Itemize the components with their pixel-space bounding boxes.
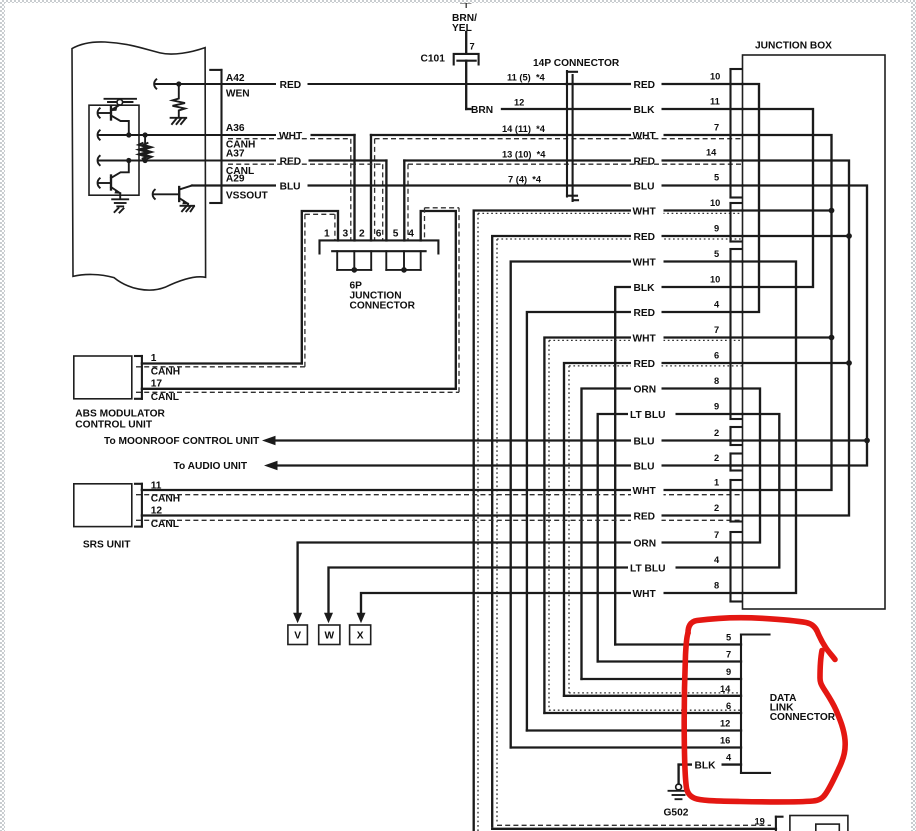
svg-text:13 (10) *4: 13 (10) *4 — [502, 150, 546, 160]
wire: To MOONROOF CONTROL UNIT arrow (row15 left) — [262, 436, 731, 445]
svg-text:8: 8 — [714, 581, 719, 591]
svg-text:YEL: YEL — [452, 23, 472, 34]
junction box connector bracket C (pins 5,10,4,7,6,8,9) — [731, 249, 742, 419]
scan border top — [0, 0, 916, 3]
wire: DLC pin 5 row (BLK) — [615, 643, 741, 645]
svg-text:10: 10 — [710, 275, 720, 285]
svg-text:16: 16 — [720, 736, 730, 746]
svg-text:BLK: BLK — [634, 283, 656, 294]
box X — [350, 625, 371, 645]
svg-text:BLK: BLK — [695, 761, 717, 772]
svg-text:CONTROL UNIT: CONTROL UNIT — [75, 420, 153, 431]
svg-text:WHT: WHT — [633, 486, 657, 497]
ground (Q2 emitter) — [112, 199, 128, 212]
svg-text:5: 5 — [714, 249, 719, 259]
arrow into V — [293, 613, 302, 624]
svg-text:A29: A29 — [226, 173, 245, 184]
junction box connector bracket F (pins 1,2) — [731, 480, 742, 522]
svg-text:9: 9 — [714, 224, 719, 234]
node: CANH internal junction — [126, 132, 131, 137]
svg-text:7: 7 — [714, 530, 719, 540]
wire: DLC pin 9 row — [582, 678, 742, 680]
shield dash row4 — [228, 164, 743, 240]
connector 14P bracket — [567, 71, 578, 201]
ground G502 — [669, 765, 689, 800]
wire: row7 RED to junction pin 9 — [492, 236, 742, 827]
junction box connector bracket B (pins 10,9) — [731, 203, 742, 242]
bottom unit inner box (cut off) — [816, 824, 840, 831]
wire: row17 WHT SRS CANH to junction pin 1 — [136, 490, 743, 495]
junction box internal bus v6 (WHT 5-8) — [743, 262, 797, 594]
wire: CANL internal (stub arc to A37) — [98, 156, 281, 165]
svg-text:LT BLU: LT BLU — [630, 410, 665, 421]
svg-text:9: 9 — [714, 402, 719, 412]
wire: ABS CANH riser (pin1 bridge) — [302, 211, 338, 364]
junction box connector bracket G (pins 7,4,8) — [731, 532, 742, 602]
svg-text:RED: RED — [634, 512, 656, 523]
arrow into W — [324, 613, 333, 624]
svg-text:RED: RED — [280, 80, 302, 91]
wire label BLU (row15) — [730, 439, 743, 441]
svg-text:A36: A36 — [226, 123, 245, 134]
junction box connector bracket E (pin 2) — [731, 454, 742, 471]
svg-text:WHT: WHT — [633, 207, 657, 218]
wire: To AUDIO UNIT arrow (row16 left) — [264, 461, 731, 470]
box W — [319, 625, 340, 645]
svg-text:4: 4 — [408, 229, 414, 240]
svg-text:10: 10 — [710, 72, 720, 82]
svg-text:2: 2 — [359, 229, 365, 240]
driver IC inner box — [89, 105, 139, 195]
svg-text:1: 1 — [151, 353, 157, 364]
svg-text:7: 7 — [714, 325, 719, 335]
svg-text:12: 12 — [514, 98, 524, 108]
svg-text:A37: A37 — [226, 148, 245, 159]
svg-text:6: 6 — [376, 229, 382, 240]
svg-text:BLU: BLU — [634, 437, 655, 448]
resistors R1 R2 (CAN termination pair) — [138, 135, 151, 161]
svg-text:WHT: WHT — [633, 258, 657, 269]
connector C101 — [454, 54, 479, 65]
svg-text:BLK: BLK — [634, 105, 656, 116]
svg-text:7: 7 — [714, 123, 719, 133]
svg-text:4: 4 — [726, 753, 732, 763]
svg-text:12: 12 — [720, 719, 730, 729]
svg-text:4: 4 — [714, 300, 720, 310]
control unit outline (wavy torn box) — [72, 42, 206, 290]
wire: DLC pin 14 row — [564, 693, 741, 696]
wire: row9 BLK to junction pin 10 — [615, 287, 742, 645]
svg-text:CANL: CANL — [151, 392, 179, 403]
wire: DLC pin 12 row — [527, 729, 741, 731]
wire: BRN from C101 to 14P pin 12 (row2) — [466, 61, 742, 109]
svg-text:BLU: BLU — [634, 462, 655, 473]
ABS modulator control unit box — [74, 356, 132, 399]
wire: row6 WHT to junction pin 10 — [474, 211, 743, 831]
svg-text:WEN: WEN — [226, 89, 250, 100]
junction box internal bus v8 (LT BLU 9-4) — [743, 414, 780, 568]
svg-text:11: 11 — [710, 97, 720, 107]
connector bracket (ECM pins A42/A36/A37/A29) — [210, 70, 221, 203]
svg-text:To MOONROOF CONTROL UNIT: To MOONROOF CONTROL UNIT — [104, 436, 260, 447]
svg-text:A42: A42 — [226, 73, 245, 84]
connector bracket (pin 19) — [776, 817, 783, 831]
6P jumper block pins 1-3-2 — [337, 251, 371, 273]
svg-text:WHT: WHT — [633, 589, 657, 600]
wire: row1 RED A42 to 14P to junction pin 10 — [566, 83, 743, 85]
node: CANL internal junction — [126, 158, 131, 163]
svg-text:WHT: WHT — [279, 131, 303, 142]
svg-text:1: 1 — [324, 229, 330, 240]
junction box outline — [743, 55, 886, 609]
wire: row13 ORN to junction pin 8 — [582, 389, 743, 680]
scan border left — [0, 0, 5, 831]
wire: row8 WHT to junction pin 5 — [511, 262, 743, 748]
svg-text:8: 8 — [714, 376, 719, 386]
wire label BLK (row2 right) — [631, 103, 662, 115]
wire: row3 WHT CANH (A36 to 6P pin3) — [281, 134, 355, 136]
svg-text:4: 4 — [714, 555, 720, 565]
transistor Q1 (PNP high-side) — [98, 105, 129, 135]
svg-text:CANH: CANH — [151, 367, 180, 378]
wire: bottom RED to connector pin 19 — [492, 825, 776, 829]
junction box internal bus v4 (RED 14-9-6-2) — [743, 161, 850, 516]
node: CANH termination junction — [143, 132, 148, 137]
svg-text:RED: RED — [634, 232, 656, 243]
wire: row3 WHT from 6P pin2 to 14P to junction pin 7 — [371, 134, 743, 136]
wire: row14 LT BLU to junction pin 9 — [598, 414, 743, 662]
wire: row18 RED SRS CANL to junction pin 2 — [136, 516, 743, 521]
junction box connector bracket A (pins 10,11,7,14,5) — [731, 69, 742, 198]
svg-text:ORN: ORN — [634, 385, 657, 396]
wire: row4 RED CANL (A37 to 6P pin6) — [281, 159, 386, 161]
svg-text:2: 2 — [714, 453, 719, 463]
svg-text:JUNCTION BOX: JUNCTION BOX — [755, 41, 832, 52]
wire: row4 RED from 6P pin5 to 14P to junction pin 14 — [404, 159, 742, 161]
svg-text:1: 1 — [714, 478, 719, 488]
wire: 6P pin5 vertical (CANL out) — [403, 161, 405, 241]
wire: row10 RED to junction pin 4 — [527, 312, 743, 731]
junction box connector bracket D (pin 2) — [731, 427, 742, 445]
wire: DLC pin 16 row — [511, 746, 741, 748]
wire: row11 WHT to junction pin 7 — [544, 338, 742, 714]
junction box internal bus v3 (WHT 7-10-7-1) — [743, 135, 832, 490]
red marker circle around DLC (hand-drawn) — [684, 618, 845, 802]
wire: row5 BLU VSSOUT (A29 to 14P to junction pin 5) — [192, 184, 743, 186]
6P jumper block pins 6-5-4 — [386, 251, 420, 273]
transistor Q3 (VSSOUT driver) — [153, 186, 192, 206]
svg-text:9: 9 — [726, 667, 731, 677]
shield dash ABS CANH — [136, 214, 335, 366]
box V — [288, 625, 308, 645]
svg-text:7: 7 — [726, 650, 731, 660]
svg-text:X: X — [357, 631, 364, 642]
connector 6P junction bracket bar — [320, 240, 439, 253]
svg-text:C101: C101 — [421, 54, 446, 65]
svg-text:14: 14 — [720, 684, 731, 694]
svg-text:V: V — [294, 631, 301, 642]
svg-text:7: 7 — [470, 42, 475, 52]
node: WEN/resistor junction dot — [176, 81, 181, 86]
junction box internal bus v7 (ORN 8-7) — [743, 389, 761, 543]
wire: row19 ORN junction pin 7 to V — [298, 543, 743, 614]
wire: ABS CANL riser (pin4 bridge) — [421, 211, 456, 389]
shield dash row3 — [228, 139, 743, 241]
node: CANL termination junction — [143, 158, 148, 163]
svg-text:W: W — [324, 631, 334, 642]
junction box internal bus v1 (RED 10-4) — [743, 84, 760, 312]
arrow into X — [357, 613, 366, 624]
SRS connector bracket — [135, 484, 142, 527]
wire: 6P pin6 vertical (CANL in) — [385, 161, 387, 241]
svg-text:VSSOUT: VSSOUT — [226, 190, 269, 201]
6P junction connector pin numbers 1 3 2 6 5 4 — [324, 229, 414, 240]
wire label RED (row1 right) — [631, 78, 662, 90]
SRS unit box — [74, 484, 132, 527]
shield dash ABS CANL — [136, 208, 459, 392]
wire: DLC pin 4 BLK ground row — [679, 759, 741, 772]
wire: BRN/YEL drop to C101 — [461, 3, 471, 54]
ground (Q3 emitter) — [181, 206, 195, 212]
supply rail symbol — [105, 99, 137, 105]
wire: CANH internal (stub arc to A36) — [98, 130, 281, 139]
svg-text:2: 2 — [714, 503, 719, 513]
svg-text:5: 5 — [714, 173, 719, 183]
svg-text:BRN: BRN — [471, 105, 493, 116]
bottom unit box (cut off) — [790, 816, 848, 831]
svg-text:ORN: ORN — [634, 539, 657, 550]
wire: DLC pin 6 row — [544, 710, 741, 713]
ABS connector bracket — [135, 356, 142, 399]
svg-text:19: 19 — [755, 817, 765, 827]
wire: row21 WHT junction pin 8 to X — [361, 593, 743, 613]
wire: row12 RED to junction pin 6 — [564, 363, 743, 696]
connector DLC bracket — [741, 635, 770, 774]
svg-text:10: 10 — [710, 198, 720, 208]
svg-text:RED: RED — [634, 308, 656, 319]
svg-text:7 (4) *4: 7 (4) *4 — [508, 175, 542, 185]
svg-text:14: 14 — [706, 148, 717, 158]
svg-text:17: 17 — [151, 378, 163, 389]
svg-text:14 (11) *4: 14 (11) *4 — [502, 124, 546, 134]
wire: 6P pin2 vertical (CANH out) — [370, 135, 372, 240]
svg-text:11 (5) *4: 11 (5) *4 — [507, 73, 546, 83]
svg-text:5: 5 — [393, 229, 399, 240]
wire: DLC pin 7 row — [598, 660, 741, 662]
svg-text:SRS UNIT: SRS UNIT — [83, 540, 131, 551]
svg-text:RED: RED — [280, 157, 302, 168]
svg-text:BLU: BLU — [634, 182, 655, 193]
svg-text:CONNECTOR: CONNECTOR — [350, 301, 416, 312]
svg-text:14P CONNECTOR: 14P CONNECTOR — [533, 58, 620, 69]
ground (R3) — [171, 118, 187, 124]
svg-text:WHT: WHT — [633, 334, 657, 345]
wire label BLU (row16) — [730, 464, 743, 466]
svg-text:ABS MODULATOR: ABS MODULATOR — [75, 409, 165, 420]
junction box internal bus v2 (BLK 11-10) — [743, 109, 814, 287]
wire: ABS CANH row — [142, 362, 302, 364]
svg-text:3: 3 — [343, 229, 349, 240]
wire: ECM internal WEN lead with stub arc — [154, 79, 566, 88]
junction box internal bus v5 (BLU 5-2-2) — [743, 186, 868, 466]
svg-text:BLU: BLU — [280, 182, 301, 193]
wire: ABS CANL row — [142, 388, 456, 390]
svg-text:RED: RED — [634, 80, 656, 91]
scan border right — [911, 0, 916, 831]
svg-text:5: 5 — [726, 633, 731, 643]
svg-text:6: 6 — [714, 351, 719, 361]
transistor Q2 (NPN low-side) — [98, 161, 129, 199]
svg-text:6: 6 — [726, 701, 731, 711]
svg-text:G502: G502 — [664, 808, 689, 819]
svg-text:RED: RED — [634, 359, 656, 370]
svg-text:WHT: WHT — [633, 131, 657, 142]
svg-text:2: 2 — [714, 428, 719, 438]
wire: row20 LT BLU junction pin 4 to W — [329, 568, 743, 614]
svg-text:RED: RED — [634, 157, 656, 168]
svg-text:CONNECTOR: CONNECTOR — [770, 712, 836, 723]
svg-text:To AUDIO UNIT: To AUDIO UNIT — [174, 461, 248, 472]
resistor R3 (WEN pull-down) — [173, 84, 186, 118]
svg-text:LT BLU: LT BLU — [630, 564, 665, 575]
wire: 6P pin3 vertical (CANH in) — [353, 135, 355, 240]
